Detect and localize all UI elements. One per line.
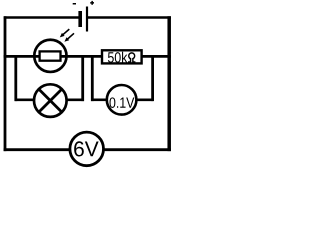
wire bottom right <box>103 148 170 151</box>
LDR light arrow 1 <box>60 29 70 37</box>
wire top right (battery positive lead) <box>87 16 171 19</box>
wire left vertical <box>4 16 7 151</box>
battery cell (positive long thin plate) <box>86 7 88 32</box>
wire voltmeter branch left stub <box>91 99 107 102</box>
voltmeter reading 0.1V <box>109 97 134 108</box>
wire lamp branch right riser <box>81 55 84 101</box>
LDR light arrow 2 <box>64 33 74 42</box>
wire bottom left <box>4 148 70 151</box>
wire middle rail (left vertical to LDR and 50k box) <box>4 55 103 58</box>
label 50kΩ <box>108 52 128 63</box>
wire lamp branch right stub <box>67 99 84 102</box>
battery 6V circle <box>70 132 104 166</box>
wire right vertical <box>167 16 171 151</box>
wire top left (battery negative lead) <box>4 16 79 19</box>
resistor R1 box <box>102 50 142 63</box>
lamp cross stroke 1 <box>39 89 62 112</box>
lamp circle <box>34 84 67 117</box>
LDR circle <box>34 40 66 72</box>
voltmeter circle <box>107 85 137 115</box>
lamp cross stroke 2 <box>39 89 62 112</box>
label - (negative terminal) <box>73 3 76 5</box>
battery cell (negative short thick plate) <box>78 11 82 27</box>
label + (positive terminal) <box>90 1 94 5</box>
label Ohm symbol <box>128 53 135 62</box>
wire voltmeter branch left drop <box>91 55 94 101</box>
wire voltmeter branch right stub <box>137 99 154 102</box>
wire lamp branch left elbow <box>15 99 34 102</box>
wire lamp branch left drop <box>14 55 17 101</box>
LDR resistor body <box>40 51 61 60</box>
label 6V <box>74 141 98 156</box>
wire rail right segment (box to right vertical) <box>141 55 171 58</box>
wire voltmeter branch right riser <box>151 55 154 101</box>
